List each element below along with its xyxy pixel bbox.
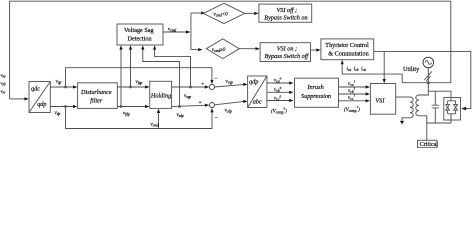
block: VSI <box>370 84 395 115</box>
svg-text:(Vcomp1): (Vcomp1) <box>344 105 360 113</box>
capacitor C: plates <box>432 105 439 108</box>
wire: v_fdp up to sag detection <box>120 49 122 107</box>
source: utility AC <box>423 57 434 68</box>
wire: diamond1 to action box1 <box>245 12 255 14</box>
svg-text:Detection: Detection <box>128 35 152 42</box>
svg-text:vcc1: vcc1 <box>348 94 355 101</box>
wire: utility source to bus <box>427 68 429 83</box>
svg-text:vcmd≥0: vcmd≥0 <box>212 48 226 53</box>
wire: v_qp from transform to disturbance filter <box>50 86 73 88</box>
svg-text:Holding: Holding <box>150 93 171 100</box>
wire: v_ca1 to VSI <box>339 86 366 88</box>
inductor: transformer secondary winding <box>416 95 419 116</box>
svg-text:vfdp: vfdp <box>123 112 130 117</box>
summer: bottom d-axis <box>210 103 215 108</box>
svg-text:VSI: VSI <box>375 98 385 105</box>
wire: bus to transformer secondary <box>419 83 428 95</box>
wire: load-side bottom rail <box>427 122 451 124</box>
thyristor pair inside bypass switch <box>448 98 456 121</box>
wire: v_fqp up to sag detection <box>130 49 132 87</box>
block: Voltage Sag Detection <box>117 24 163 45</box>
svg-text:vqp: vqp <box>56 80 62 85</box>
svg-text:vsqp: vsqp <box>184 94 191 99</box>
svg-text:+: + <box>199 100 202 106</box>
junction v_fqp tap <box>129 86 132 89</box>
svg-text:VSI on ;: VSI on ; <box>277 45 297 52</box>
svg-text:vcmd: vcmd <box>168 28 176 33</box>
wire: v_ca0 to inrush suppression <box>267 82 289 84</box>
decision diamond: v_cmd < 0 <box>203 3 244 23</box>
svg-text:vsc: vsc <box>1 89 6 95</box>
svg-text:Bypass Switch on: Bypass Switch on <box>264 15 307 22</box>
wire: v_cmd up into holding <box>158 112 160 128</box>
svg-text:ica icb icn: ica icb icn <box>347 67 367 72</box>
block: Thyristor Control & Commutation <box>321 39 374 60</box>
wire: utility bus <box>402 82 451 84</box>
wire: v_fdp filter to holding <box>117 106 145 108</box>
thyristor Q1 (bowtie) <box>446 105 450 111</box>
switch: utility breaker <box>424 71 431 79</box>
capacitor C: filter cap legs <box>434 91 436 123</box>
wire: v_fqp filter to holding <box>117 86 145 88</box>
svg-text:abc: abc <box>253 98 262 105</box>
svg-text:VSI off ;: VSI off ; <box>277 7 298 14</box>
block: VSI off / bypass switch on <box>259 4 312 22</box>
inductor: transformer primary winding <box>410 97 413 118</box>
wire: bypass branch rail <box>428 91 451 97</box>
wire: v_cdp to dq-abc transform <box>215 102 244 105</box>
wire: v_sqp holding to top summer <box>172 86 205 88</box>
junction: bus node <box>427 81 430 84</box>
wire: v_cc0 to inrush suppression <box>267 100 289 102</box>
junction v_qp tap <box>64 86 67 89</box>
wire: v_cc1 to VSI <box>339 100 366 102</box>
wire: primary return <box>402 118 410 121</box>
svg-text:filter: filter <box>90 97 103 104</box>
junction v_fdp tap <box>120 105 123 108</box>
svg-text:vcmd: vcmd <box>151 123 159 128</box>
wire: line current sense i_ca i_cb i_cn into thyristor control <box>342 64 402 83</box>
thyristor Q2 (bowtie) <box>454 105 458 111</box>
svg-text:Disturbance: Disturbance <box>80 89 112 96</box>
wire: v_cqp to dq-abc transform <box>215 85 244 87</box>
ground: primary reference <box>400 121 404 125</box>
svg-text:vcmd<0: vcmd<0 <box>214 12 229 17</box>
svg-text:vsa: vsa <box>1 73 6 79</box>
wire: utility sense rail (top) from load bus to transform input <box>10 1 451 99</box>
block: bypass switch (antiparallel thyristors) <box>444 98 461 121</box>
wire: v_sqp routed up to sag detection <box>155 49 191 87</box>
svg-text:qdp: qdp <box>249 78 258 85</box>
wire: bypass bottom leg <box>450 120 452 123</box>
svg-text:vcqp: vcqp <box>226 79 234 84</box>
wire: thyristor control to VSI gating <box>383 51 385 79</box>
summer: top q-axis <box>209 84 214 89</box>
svg-text:Voltage Sag: Voltage Sag <box>124 27 154 34</box>
svg-text:−: − <box>215 116 218 122</box>
junction v_sdp tap <box>178 105 181 108</box>
wire: v_cmd branch vertical <box>190 13 192 50</box>
svg-text:Bypass Switch off: Bypass Switch off <box>265 53 310 60</box>
block U1: abc to qdc/qdp transform <box>29 82 50 113</box>
svg-text:Thyristor Control: Thyristor Control <box>325 42 369 49</box>
wire: VSI output to injection transformer primary <box>396 96 410 98</box>
svg-text:Inrush: Inrush <box>307 84 324 91</box>
block: Disturbance filter <box>78 83 118 109</box>
svg-text:(Vcomp0): (Vcomp0) <box>271 107 287 115</box>
svg-text:vdp: vdp <box>55 111 61 116</box>
svg-text:vca0: vca0 <box>274 76 282 83</box>
svg-text:Utility: Utility <box>403 66 420 73</box>
block: critical load <box>418 140 438 147</box>
wire: v_cmd to first decision diamond <box>191 12 201 14</box>
svg-text:qdp: qdp <box>37 101 46 108</box>
wire: v_sdp routed up to sag detection <box>143 49 180 107</box>
svg-text:qdc: qdc <box>31 86 40 93</box>
wire: v_dp from transform to disturbance filter <box>50 106 73 108</box>
wire: v_cb1 to VSI <box>339 93 366 95</box>
svg-text:vsb: vsb <box>1 81 6 87</box>
wire: v_cb0 to inrush suppression <box>267 91 289 93</box>
wire: v_dp minus route to bottom summer <box>66 107 213 129</box>
junction v_sqp tap <box>189 86 192 89</box>
wire: sense line into qdc transform <box>10 98 25 100</box>
wire: v_qp minus route to top summer <box>66 68 212 87</box>
block: VSI on / bypass switch off <box>260 43 310 62</box>
wire: diamond2 to action box2 <box>239 48 255 50</box>
svg-text:vfqp: vfqp <box>136 80 143 85</box>
block U2: qdp to abc transform <box>248 76 267 108</box>
wire: v_cmd to second decision diamond <box>191 49 198 51</box>
wire: box2 to thyristor control <box>311 49 317 51</box>
decision diamond: v_cmd >= 0 <box>206 39 239 59</box>
block: Holding <box>150 81 172 108</box>
wire: secondary to load <box>419 116 427 141</box>
svg-text:Critical: Critical <box>420 141 439 148</box>
svg-text:vcdp: vcdp <box>225 109 233 114</box>
wire: v_cmd output of sag detection <box>163 31 186 33</box>
wire: thyristor gate lead to bypass switch <box>374 51 471 108</box>
svg-text:vsdp: vsdp <box>177 113 184 118</box>
wire: v_sdp holding to bottom summer <box>172 105 205 106</box>
svg-text:& Commutation: & Commutation <box>328 50 368 57</box>
block: Inrush Suppression <box>295 78 339 107</box>
svg-text:Suppression: Suppression <box>301 93 331 100</box>
svg-text:+: + <box>201 82 204 88</box>
junction v_dp tap <box>64 105 67 108</box>
svg-text:−: − <box>214 76 217 82</box>
